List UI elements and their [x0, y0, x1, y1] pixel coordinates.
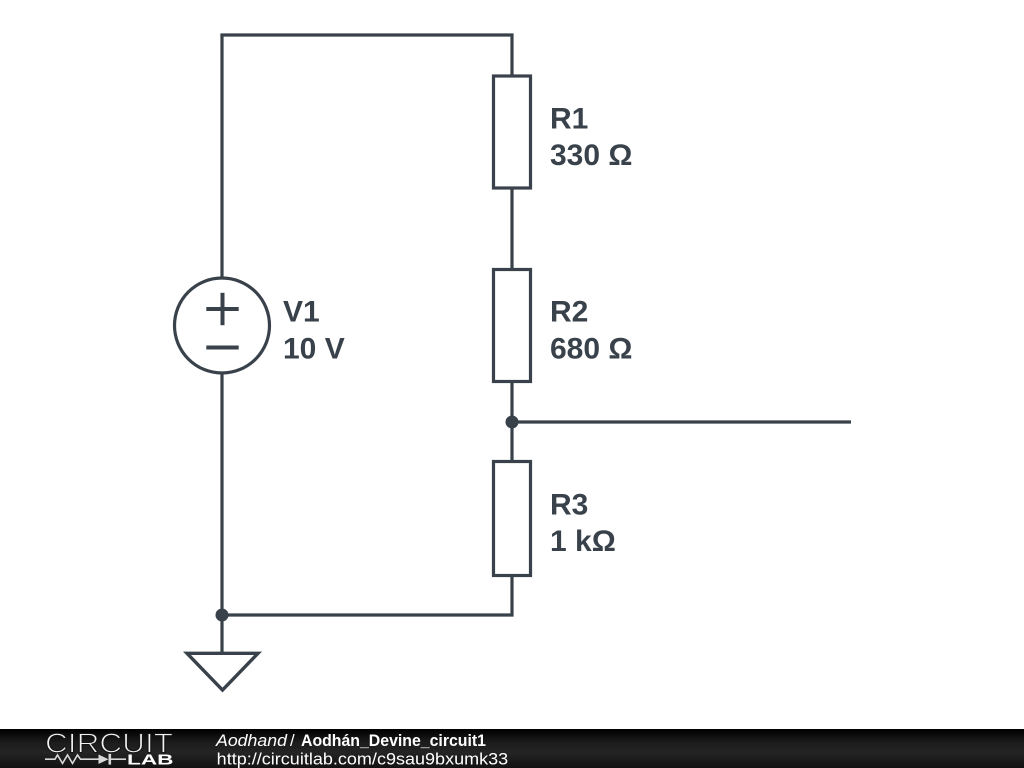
svg-text:Aodhand: Aodhand — [215, 731, 288, 750]
wire top horizontal — [222, 35, 512, 76]
resistor R1 — [494, 76, 531, 188]
CircuitLab logo wordmark CIRCUIT — [45, 727, 173, 758]
footer bar — [0, 729, 1024, 768]
label V1 10 V — [283, 295, 345, 365]
voltage source V1 — [175, 278, 270, 373]
CircuitLab logo wordmark LAB — [127, 752, 174, 768]
node junction dot between R2 and R3 — [506, 416, 519, 429]
wire bottom horizontal — [222, 576, 512, 616]
svg-text:Aodhán_Devine_circuit1: Aodhán_Devine_circuit1 — [301, 731, 486, 750]
svg-text:V1: V1 — [283, 295, 320, 328]
resistor R2 — [494, 270, 531, 382]
wire left upper (V1 to top) — [220, 35, 223, 278]
label R1 330 Ohm — [550, 102, 632, 172]
node junction dot bottom left — [216, 609, 229, 622]
svg-text:http://circuitlab.com/c9sau9bx: http://circuitlab.com/c9sau9bxumk33 — [217, 749, 509, 768]
svg-text:330 Ω: 330 Ω — [550, 139, 632, 172]
label R2 680 Ohm — [550, 295, 632, 365]
wire output tap horizontal — [512, 420, 851, 423]
label R3 1 kOhm — [550, 488, 616, 558]
wire left lower (V1 to ground node) — [220, 373, 223, 653]
wire R2 to R3 through node — [510, 382, 513, 462]
svg-text:10 V: 10 V — [283, 332, 345, 365]
CircuitLab logo resistor zigzag and diode — [45, 754, 126, 765]
wire R1 to R2 — [510, 188, 513, 270]
svg-text:1 kΩ: 1 kΩ — [550, 525, 616, 558]
svg-text:/: / — [290, 731, 295, 750]
resistor R3 — [494, 462, 531, 576]
svg-text:680 Ω: 680 Ω — [550, 332, 632, 365]
ground — [187, 653, 258, 690]
svg-text:LAB: LAB — [127, 752, 174, 768]
footer title line — [215, 731, 486, 750]
svg-text:R2: R2 — [550, 295, 588, 328]
footer url line — [217, 749, 509, 768]
svg-text:R1: R1 — [550, 102, 588, 135]
svg-text:R3: R3 — [550, 488, 588, 521]
